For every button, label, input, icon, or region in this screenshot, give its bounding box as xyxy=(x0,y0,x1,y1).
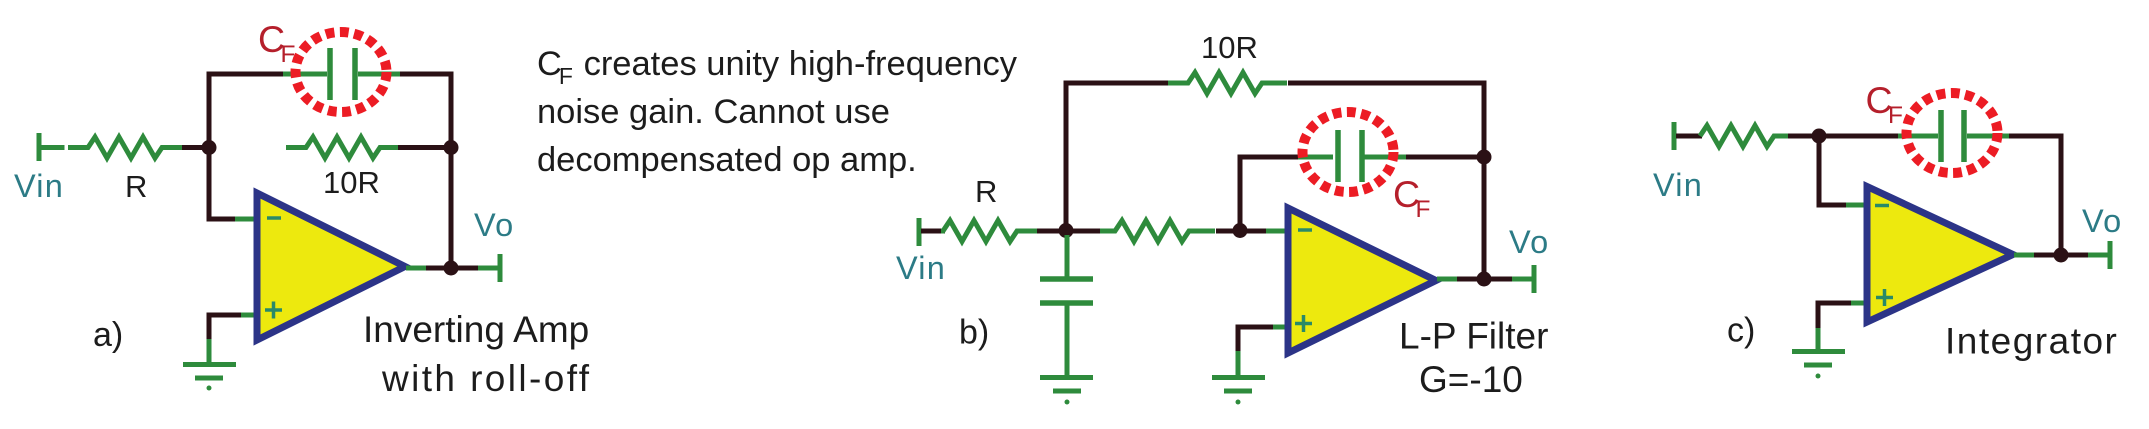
op-amp output pin (c) xyxy=(2014,253,2036,258)
wire + input to ground (b) xyxy=(1238,327,1273,353)
highlight circle around CF (b) xyxy=(1303,112,1394,192)
svg-text:Inverting Amp: Inverting Amp xyxy=(363,309,589,350)
op-amp U1 (a) xyxy=(257,193,405,340)
wire output to node I (c) xyxy=(2034,253,2061,258)
svg-text:a): a) xyxy=(93,316,123,354)
wire output to node G (b) xyxy=(1457,277,1484,282)
wire Vin to R (b) xyxy=(921,229,945,234)
wire R to node H (c) xyxy=(1788,134,1819,139)
wire + input to ground (a) xyxy=(209,315,241,341)
wire node D up to 10R (b) xyxy=(1066,83,1172,233)
wire node A down to inverting input (a) xyxy=(209,148,237,220)
terminal Vo (a) xyxy=(478,254,500,282)
ground GND2 (b) xyxy=(1212,378,1265,405)
ground GND (a) xyxy=(183,339,236,391)
resistor R (c) xyxy=(1700,126,1796,147)
terminal Vin (b) xyxy=(917,218,922,246)
svg-text:decompensated op amp.: decompensated op amp. xyxy=(537,141,917,179)
wire down to GND (c) xyxy=(1816,328,1821,351)
capacitor C shunt (b) xyxy=(1040,279,1093,303)
svg-text:Vo: Vo xyxy=(2082,203,2122,239)
svg-text:CF creates unity high-frequenc: CF creates unity high-frequency xyxy=(537,45,1018,89)
wire Vin to R (c) xyxy=(1676,134,1702,139)
minus sign (c) xyxy=(1875,204,1889,208)
node G: output junction (b) xyxy=(1477,272,1492,287)
svg-text:c): c) xyxy=(1727,312,1755,350)
svg-text:Vo: Vo xyxy=(1509,224,1549,260)
svg-text:R: R xyxy=(125,169,147,204)
node A: summing junction (a) xyxy=(202,140,217,155)
wire node G to Vo terminal (b) xyxy=(1484,277,1514,282)
terminal Vo (b) xyxy=(1512,265,1534,293)
wire CF to right rail (a) xyxy=(400,74,451,265)
wire CF to node E (b) xyxy=(1406,155,1484,160)
wire node D to R2 (b) xyxy=(1066,229,1102,234)
wire node F to inverting input (b) xyxy=(1240,229,1268,234)
node I: output junction (c) xyxy=(2054,248,2069,263)
resistor 10R (a) xyxy=(286,137,400,158)
node C: output junction (a) xyxy=(444,261,459,276)
svg-text:Vin: Vin xyxy=(14,168,64,204)
svg-text:Vin: Vin xyxy=(1653,167,1703,203)
minus sign (b) xyxy=(1298,228,1312,232)
wire output to node C (a) xyxy=(426,266,451,271)
highlight circle around CF (a) xyxy=(296,32,387,112)
svg-text:with roll-off: with roll-off xyxy=(381,358,591,399)
minus sign (a) xyxy=(267,216,281,220)
wire capacitor to ground (b) xyxy=(1065,305,1070,377)
wire node F up to CF (b) xyxy=(1240,157,1300,233)
ground GND1 (b) xyxy=(1040,378,1093,405)
wire CF to right rail (c) xyxy=(2009,136,2061,250)
op-amp non-inverting input pin (a) xyxy=(240,313,258,318)
op-amp output pin (b) xyxy=(1437,277,1459,282)
svg-text:10R: 10R xyxy=(1201,30,1258,65)
svg-text:noise gain. Cannot use: noise gain. Cannot use xyxy=(537,93,890,131)
svg-text:10R: 10R xyxy=(323,165,380,200)
op-amp U2 (b) xyxy=(1288,208,1436,353)
op-amp non-inverting input pin (b) xyxy=(1271,325,1289,330)
terminal Vin (a) xyxy=(39,133,65,161)
wire R to node A (a) xyxy=(182,145,209,150)
plus sign (a) xyxy=(265,302,282,319)
wire R to node D (b) xyxy=(1037,229,1066,234)
node F: inverting input junction (b) xyxy=(1233,223,1248,238)
svg-text:L-P Filter: L-P Filter xyxy=(1399,316,1548,357)
plus sign (c) xyxy=(1876,289,1893,306)
svg-text:R: R xyxy=(975,174,997,209)
node H: input junction (c) xyxy=(1812,129,1827,144)
highlight circle around CF (c) xyxy=(1907,93,1998,173)
op-amp inverting input pin (b) xyxy=(1266,229,1288,234)
node B: feedback junction (a) xyxy=(444,140,459,155)
resistor 10R (b) xyxy=(1168,73,1287,94)
svg-text:Integrator: Integrator xyxy=(1945,321,2118,362)
op-amp non-inverting input pin (c) xyxy=(1849,301,1867,306)
ground GND (c) xyxy=(1792,352,1845,379)
wire down to GND2 (b) xyxy=(1236,351,1241,377)
wire node E down to node G (b) xyxy=(1482,157,1487,279)
wire 10R to node B (a) xyxy=(398,145,445,150)
svg-text:G=-10: G=-10 xyxy=(1419,359,1523,400)
terminal Vin (c) xyxy=(1672,122,1677,150)
svg-text:F: F xyxy=(1416,196,1431,223)
wire node H to CF (c) xyxy=(1819,134,1900,139)
svg-text:b): b) xyxy=(959,314,989,352)
wire 10R to right rail top (b) xyxy=(1288,83,1484,152)
terminal Vo (c) xyxy=(2088,241,2110,269)
wire node D down to shunt capacitor (b) xyxy=(1065,235,1070,278)
wire node C to Vo terminal (a) xyxy=(451,266,480,271)
wire + input to ground (c) xyxy=(1818,303,1851,330)
svg-text:Vo: Vo xyxy=(474,207,514,243)
resistor R2 (b) xyxy=(1100,221,1215,242)
plus sign (b) xyxy=(1295,315,1312,332)
capacitor CF (c) xyxy=(1898,110,2011,162)
resistor R (a) xyxy=(68,137,183,158)
resistor R (b) xyxy=(941,221,1040,242)
op-amp output pin (a) xyxy=(406,266,428,271)
capacitor CF (a) xyxy=(283,48,402,100)
wire node H down to inverting input (c) xyxy=(1819,136,1848,205)
op-amp inverting input pin (c) xyxy=(1846,203,1866,208)
wire R2 to node F (b) xyxy=(1216,229,1240,234)
op-amp inverting input pin (a) xyxy=(235,217,257,222)
svg-text:F: F xyxy=(1888,102,1903,129)
node D: input junction (b) xyxy=(1059,223,1074,238)
capacitor CF (b) xyxy=(1298,130,1408,182)
node E: feedback junction upper (b) xyxy=(1477,150,1492,165)
wire node A up to CF branch (a) xyxy=(209,74,285,150)
wire node I to Vo terminal (c) xyxy=(2061,253,2090,258)
svg-text:F: F xyxy=(281,41,296,68)
svg-text:Vin: Vin xyxy=(896,250,946,286)
op-amp U3 (c) xyxy=(1867,187,2013,323)
